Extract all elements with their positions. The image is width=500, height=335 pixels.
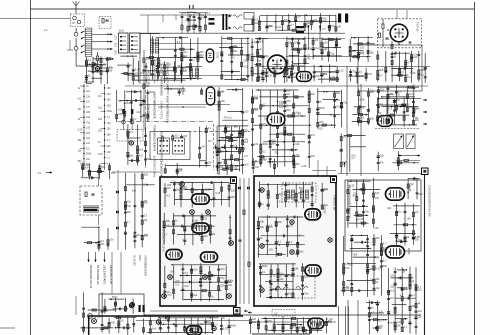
svg-text:330: 330 (244, 129, 249, 132)
svg-text:4,7: 4,7 (407, 62, 411, 65)
svg-text:0,5: 0,5 (193, 327, 197, 330)
svg-text:0,25: 0,25 (181, 90, 186, 93)
svg-text:100: 100 (174, 135, 179, 138)
keying pulse box (150, 132, 190, 160)
tube V2 anode load parts (221, 36, 223, 80)
tube V10 ECH81b (192, 223, 209, 233)
svg-text:220: 220 (252, 318, 257, 321)
svg-text:1M: 1M (212, 233, 215, 236)
svg-text:56p: 56p (78, 160, 83, 163)
svg-text:4,7: 4,7 (351, 157, 355, 160)
svg-text:100: 100 (86, 116, 91, 119)
svg-text:4,7: 4,7 (379, 74, 383, 77)
pin connector sub-box 1 (158, 138, 170, 154)
svg-text:10n: 10n (136, 234, 141, 237)
test point bottom 2 (156, 320, 160, 324)
svg-text:0,25: 0,25 (376, 267, 381, 270)
box B mid network (257, 217, 259, 258)
svg-text:330: 330 (268, 75, 273, 78)
trimmer C3 (74, 46, 78, 50)
svg-text:100: 100 (158, 328, 163, 331)
svg-text:150: 150 (397, 325, 402, 328)
box B test points (260, 188, 264, 192)
svg-text:0,1: 0,1 (182, 238, 186, 241)
svg-text:330: 330 (111, 321, 116, 324)
svg-text:0,1: 0,1 (88, 59, 92, 62)
svg-text:100: 100 (390, 274, 395, 277)
coil box L20 (394, 134, 404, 149)
svg-text:220: 220 (98, 118, 103, 121)
svg-text:1M: 1M (297, 15, 300, 18)
svg-text:BILDROHR AW 43: BILDROHR AW 43 (89, 265, 93, 289)
svg-text:100: 100 (370, 91, 375, 94)
svg-text:4,7: 4,7 (404, 326, 408, 329)
wire off-page left to antenna (0, 18, 71, 20)
svg-text:10n: 10n (208, 140, 213, 143)
wire from connector to bus (140, 33, 160, 35)
svg-text:2n2: 2n2 (315, 47, 320, 50)
horizontal bus y86 (125, 85, 428, 87)
svg-text:330: 330 (289, 225, 294, 228)
svg-text:500k: 500k (112, 296, 118, 299)
plug pin P2 (131, 109, 133, 114)
svg-text:0,5: 0,5 (244, 155, 248, 158)
svg-text:0,25: 0,25 (135, 69, 140, 72)
network x312-345 mid (317, 88, 319, 128)
bus y56 segment right (286, 56, 360, 58)
svg-text:56p: 56p (383, 265, 388, 268)
svg-text:0,5: 0,5 (255, 19, 259, 22)
svg-text:3n9: 3n9 (152, 328, 157, 331)
right net mid (343, 236, 345, 296)
right vertical wires pair (347, 300, 349, 335)
svg-text:1M: 1M (261, 105, 264, 108)
svg-text:2n2: 2n2 (390, 289, 395, 292)
svg-text:330: 330 (231, 190, 236, 193)
extra band x348-375 y64-84 (350, 69, 352, 82)
extra right-mid fill (377, 97, 379, 125)
svg-text:330: 330 (221, 317, 226, 320)
svg-text:4,7: 4,7 (400, 295, 404, 298)
svg-text:3n9: 3n9 (84, 167, 89, 170)
box B upper network (259, 181, 261, 208)
svg-text:TONZWISCHENFR.: TONZWISCHENFR. (160, 131, 164, 158)
svg-text:1M: 1M (159, 64, 162, 67)
coil hatch 1 (287, 190, 290, 199)
B+ distribution bus top (140, 32, 345, 34)
diode pair in box A (189, 281, 192, 284)
svg-text:10n: 10n (370, 279, 375, 282)
svg-text:0,1: 0,1 (412, 294, 416, 297)
svg-text:0,1: 0,1 (176, 284, 180, 287)
ratio detector tube V3 (EABC80) round with dots (268, 55, 287, 74)
svg-text:500k: 500k (107, 110, 113, 113)
svg-text:150: 150 (360, 116, 365, 119)
oscillator unit thin box (358, 45, 422, 91)
svg-text:500k: 500k (149, 91, 155, 94)
svg-text:10n: 10n (280, 278, 285, 281)
svg-text:BANDBREITE 5MHz: BANDBREITE 5MHz (153, 156, 156, 178)
svg-text:330: 330 (167, 184, 172, 187)
svg-text:70p: 70p (365, 211, 370, 214)
svg-text:1M: 1M (144, 219, 147, 222)
svg-text:8,2: 8,2 (291, 275, 295, 278)
svg-text:4,7: 4,7 (107, 139, 111, 142)
diode D5 (229, 15, 232, 18)
AM sound tube V8 oval (378, 116, 393, 127)
svg-text:0,1: 0,1 (228, 280, 232, 283)
svg-text:10n: 10n (86, 158, 91, 161)
svg-text:1M: 1M (201, 145, 204, 148)
svg-text:220: 220 (183, 135, 188, 138)
interbox wires (239, 178, 241, 304)
extra band under V3 (258, 67, 260, 82)
margin arrows right (423, 99, 427, 101)
bus y43 segment (152, 43, 250, 45)
connector strip box BU1b (130, 33, 141, 53)
box A lower network (164, 266, 166, 300)
svg-text:3n9: 3n9 (139, 148, 144, 151)
svg-text:220: 220 (183, 70, 188, 73)
svg-text:70p: 70p (304, 292, 309, 295)
svg-text:0,5: 0,5 (144, 215, 148, 218)
right cluster beside tube V15 (407, 178, 409, 199)
wire tuner output bus (75, 50, 77, 66)
svg-text:PC92: PC92 (216, 52, 220, 59)
page frame: left border line (30, 0, 32, 335)
svg-text:ABSTIMMANZEIGE: ABSTIMMANZEIGE (153, 92, 157, 119)
svg-text:56p: 56p (157, 60, 162, 63)
diodes mid-left (116, 191, 119, 194)
svg-text:8,2: 8,2 (100, 240, 104, 243)
svg-text:3n9: 3n9 (220, 268, 225, 271)
svg-text:150: 150 (103, 63, 108, 66)
svg-text:0,5: 0,5 (86, 101, 90, 104)
svg-text:0,1: 0,1 (142, 103, 146, 106)
svg-text:5k6: 5k6 (353, 253, 358, 256)
svg-text:0,25: 0,25 (358, 218, 363, 221)
svg-text:220: 220 (286, 100, 291, 103)
coil L5 (233, 15, 242, 18)
svg-text:70p: 70p (255, 166, 260, 169)
balun transformer box T1 (dashed) (71, 14, 85, 27)
svg-text:3n9: 3n9 (132, 189, 137, 192)
box B dashed subbox lower (270, 276, 315, 298)
svg-text:0,1: 0,1 (208, 127, 212, 130)
svg-text:0,25: 0,25 (374, 227, 379, 230)
svg-text:0,25: 0,25 (301, 165, 306, 168)
svg-text:0,25: 0,25 (268, 71, 273, 74)
svg-text:1M: 1M (286, 93, 289, 96)
connector dashed box (117, 130, 143, 142)
tube V11 ECC (166, 250, 182, 260)
mid-left sparse parts near x130 (124, 173, 126, 250)
svg-text:10n: 10n (324, 189, 329, 192)
svg-text:ZF1: ZF1 (114, 35, 117, 40)
svg-text:220: 220 (304, 276, 309, 279)
svg-text:100: 100 (324, 42, 329, 45)
sparse wires above box B right (317, 160, 319, 176)
svg-text:330: 330 (376, 237, 381, 240)
svg-text:HEIZUNG 6,3V: HEIZUNG 6,3V (109, 265, 113, 284)
svg-text:10n: 10n (415, 239, 420, 242)
svg-text:0,5: 0,5 (139, 154, 143, 157)
corner tag box B (331, 177, 337, 183)
tube V5 PCF80 (390, 24, 408, 42)
svg-text:10n: 10n (397, 211, 402, 214)
svg-text:3n9: 3n9 (352, 195, 357, 198)
svg-text:150: 150 (295, 253, 300, 256)
svg-text:220: 220 (254, 109, 259, 112)
tube V7 oval (EF85) (267, 113, 285, 125)
svg-text:0,25: 0,25 (215, 192, 220, 195)
svg-text:220: 220 (349, 264, 354, 267)
bottom edge text row (252, 333, 310, 335)
right section divider line (424, 175, 426, 335)
svg-text:150: 150 (360, 51, 365, 54)
svg-text:4,7: 4,7 (290, 24, 294, 27)
svg-text:0,25: 0,25 (286, 68, 291, 71)
svg-text:3n9: 3n9 (244, 163, 249, 166)
tube V9 ECH81 (192, 194, 210, 204)
svg-text:PCF 80: PCF 80 (416, 22, 420, 32)
pin connector sub-box 2 (173, 138, 185, 154)
svg-text:4,7: 4,7 (221, 161, 225, 164)
svg-text:150: 150 (107, 104, 112, 107)
network below dash bus (127, 125, 129, 166)
svg-text:5k6: 5k6 (170, 270, 175, 273)
IF network mid-left (116, 90, 118, 122)
svg-text:5k6: 5k6 (129, 155, 134, 158)
svg-text:330: 330 (235, 165, 240, 168)
arrows up to CRT grid (307, 25, 309, 30)
svg-text:150: 150 (208, 161, 213, 164)
svg-text:500k: 500k (262, 265, 268, 268)
svg-text:2n2: 2n2 (343, 161, 348, 164)
svg-text:330: 330 (193, 269, 198, 272)
tube V13 EF89 (305, 209, 321, 220)
page frame: top border line (31, 8, 475, 10)
svg-text:330: 330 (299, 250, 304, 253)
svg-text:150: 150 (375, 197, 380, 200)
svg-text:8,2: 8,2 (233, 144, 237, 147)
AGC line network (312, 37, 314, 59)
bus y104 (141, 104, 230, 106)
svg-text:1M: 1M (415, 211, 418, 214)
svg-text:150: 150 (318, 128, 323, 131)
svg-text:0,25: 0,25 (98, 153, 103, 156)
tuner ground (84, 81, 94, 83)
wires to power box (111, 252, 113, 294)
svg-text:1M: 1M (337, 26, 340, 29)
svg-text:100: 100 (143, 184, 148, 187)
tuner coil ladder L1 (84, 28, 86, 57)
svg-text:8,2: 8,2 (262, 151, 266, 154)
svg-text:70p: 70p (107, 122, 112, 125)
cable bundle wire b (104, 84, 106, 170)
top border tick marks (189, 5, 190, 9)
svg-text:150: 150 (269, 248, 274, 251)
svg-text:UNTERBRECHER: UNTERBRECHER (144, 255, 147, 276)
svg-text:GL 50 B2: GL 50 B2 (133, 255, 136, 266)
svg-text:0,1: 0,1 (420, 74, 424, 77)
svg-text:2n2: 2n2 (409, 93, 414, 96)
wire vertical drop x150 (150, 33, 152, 76)
svg-text:330: 330 (296, 163, 301, 166)
vertical bus x361 (360, 84, 362, 176)
svg-text:5,5 MHz TONTEIL: 5,5 MHz TONTEIL (160, 101, 162, 121)
svg-text:70p: 70p (330, 53, 335, 56)
svg-text:0,25: 0,25 (333, 40, 338, 43)
svg-text:100: 100 (230, 56, 235, 59)
svg-text:8,2: 8,2 (86, 147, 90, 150)
svg-text:100: 100 (199, 51, 204, 54)
svg-text:150: 150 (203, 218, 208, 221)
svg-text:AT: AT (72, 21, 76, 25)
svg-text:0,25: 0,25 (359, 75, 364, 78)
svg-text:0,5: 0,5 (279, 201, 283, 204)
box B inner coils lower (276, 287, 288, 290)
bus arrow up (344, 162, 346, 167)
svg-text:500k: 500k (86, 153, 92, 156)
corner tag box A (231, 178, 237, 184)
svg-text:220: 220 (413, 56, 418, 59)
chassis bus y315 (144, 314, 421, 316)
arrow mark y311 (244, 310, 248, 312)
wires from speaker (98, 170, 100, 186)
power entry box (99, 294, 144, 316)
svg-text:EF 80: EF 80 (407, 248, 410, 255)
svg-text:1M: 1M (315, 39, 318, 42)
extra band x312-345 y62-84 (313, 65, 315, 81)
svg-text:330: 330 (390, 286, 395, 289)
svg-text:0,1: 0,1 (322, 28, 326, 31)
sound unit box (thick) (254, 176, 336, 306)
connection bus above boxes y172 (112, 171, 160, 173)
IF chain arrows down (215, 145, 217, 150)
svg-text:100: 100 (279, 101, 284, 104)
focus control cluster (82, 163, 84, 178)
sound IF filter caps (252, 16, 254, 32)
dash-dot bus y122 (118, 121, 213, 123)
svg-text:70p: 70p (316, 75, 321, 78)
svg-text:3n9: 3n9 (167, 187, 172, 190)
svg-text:150: 150 (298, 192, 303, 195)
svg-text:2n2: 2n2 (136, 111, 141, 114)
V5 grid parts (382, 24, 384, 28)
extra coupling parts band y62-84 (127, 63, 129, 81)
svg-text:500k: 500k (359, 98, 365, 101)
sync separator network right (377, 51, 379, 82)
trap boxes (244, 13, 254, 20)
network right-mid upper (377, 86, 379, 114)
svg-text:330: 330 (101, 166, 106, 169)
svg-text:100: 100 (228, 284, 233, 287)
top wire y15 (140, 14, 232, 16)
detector network around V3 (251, 38, 253, 82)
power box test point (130, 302, 134, 306)
sound IF chain x250-310 (252, 89, 254, 165)
right column chains mid (216, 126, 218, 171)
svg-text:53 KATODE G1: 53 KATODE G1 (96, 265, 100, 285)
svg-text:1M: 1M (179, 169, 182, 172)
svg-text:4,7: 4,7 (295, 97, 299, 100)
svg-text:500k: 500k (262, 143, 268, 146)
contact springs (82, 31, 85, 33)
IF transformer pair (hatched) top (190, 68, 193, 77)
svg-text:8,2: 8,2 (184, 272, 188, 275)
svg-text:1M: 1M (390, 297, 393, 300)
svg-text:5k6: 5k6 (379, 69, 384, 72)
svg-text:10n: 10n (404, 288, 409, 291)
bottom band tube V18 EL84 (308, 318, 324, 328)
svg-text:5k6: 5k6 (234, 126, 239, 129)
svg-text:0,1: 0,1 (287, 190, 291, 193)
svg-text:1M: 1M (329, 318, 332, 321)
box B dashed subbox filter (282, 183, 316, 202)
dashed vertical x145 (144, 84, 146, 168)
power unit thick box left edge (88, 316, 90, 335)
fold mark bottom left (0, 327, 15, 329)
svg-text:70p: 70p (410, 183, 415, 186)
coupling network below bus left (151, 36, 153, 79)
ion trap cluster (98, 226, 100, 251)
svg-text:10n: 10n (183, 51, 188, 54)
svg-text:ZF2: ZF2 (114, 43, 117, 48)
CRT connection arrows (88, 258, 90, 263)
loudspeaker box dashed (80, 186, 102, 215)
svg-text:10n: 10n (221, 138, 226, 141)
power cluster lower left (83, 293, 85, 334)
big filter cap C20 (black bars) (338, 14, 341, 23)
bus y131 dash (160, 131, 250, 133)
svg-text:2n2: 2n2 (418, 310, 423, 313)
bottom vertical wire pair x348 (345, 306, 347, 335)
svg-text:5k6: 5k6 (147, 158, 152, 161)
right net bottom (368, 300, 370, 334)
tuner ground stub (69, 40, 71, 50)
coil L6 (233, 27, 242, 30)
svg-text:100: 100 (396, 94, 401, 97)
IF wires under bus (178, 89, 180, 96)
svg-text:0,1: 0,1 (107, 157, 111, 160)
svg-text:250V: 250V (138, 255, 141, 261)
svg-text:BU1: BU1 (119, 29, 125, 33)
bottom tag left arrow (248, 312, 252, 314)
svg-text:ZUM ZEILENTRAFO BL 400: ZUM ZEILENTRAFO BL 400 (428, 185, 431, 217)
corner tag right section (422, 168, 429, 175)
svg-text:330: 330 (204, 235, 209, 238)
svg-text:2n2: 2n2 (167, 294, 172, 297)
svg-text:8,2: 8,2 (133, 118, 137, 121)
svg-text:500k: 500k (231, 325, 237, 328)
test point tuner (96, 67, 100, 71)
svg-text:56p: 56p (336, 92, 341, 95)
bus y74 segment (128, 75, 250, 77)
cable bundle wire a (83, 84, 85, 170)
bottom row wire (250, 321, 336, 323)
test point bottom 3 (212, 326, 216, 330)
svg-text:3n9: 3n9 (383, 247, 388, 250)
svg-text:8,2: 8,2 (228, 116, 232, 119)
svg-text:10n: 10n (144, 234, 149, 237)
vertical dashed x213 (213, 124, 215, 170)
svg-text:330: 330 (397, 277, 402, 280)
wire y311 (150, 310, 218, 312)
video IF tube V6 (PC86) (206, 87, 214, 105)
right section top wire (338, 173, 421, 175)
svg-text:150: 150 (268, 320, 273, 323)
